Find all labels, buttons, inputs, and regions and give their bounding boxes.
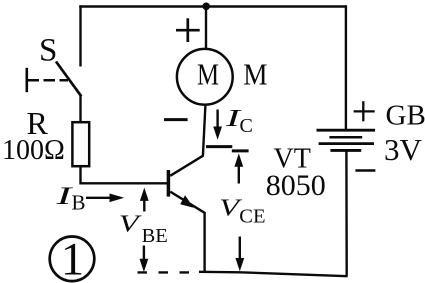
svg-text:V: V (119, 211, 143, 237)
switch S actuator dashed link (28, 79, 69, 82)
battery GB long plate 1 (317, 129, 376, 132)
transistor emitter wire (170, 192, 204, 273)
transistor emitter arrowhead (180, 195, 193, 208)
battery GB short plate 2 (330, 149, 361, 152)
svg-text:CE: CE (239, 205, 265, 227)
battery GB long plate 2 (319, 142, 374, 145)
VCE top reference bar (232, 149, 249, 152)
resistor R body (72, 122, 89, 166)
svg-text:S: S (39, 32, 57, 68)
wire right side upper (345, 5, 347, 129)
transistor collector wire from motor (170, 104, 205, 176)
svg-text:8050: 8050 (266, 169, 326, 202)
VBE up arrow (143, 199, 145, 212)
wire top-left drop to switch (79, 5, 81, 66)
bottom dashed reference line (138, 271, 201, 273)
motor M circle (177, 49, 233, 105)
svg-text:M: M (243, 58, 267, 92)
wire switch to resistor (79, 95, 81, 124)
plus sign above motor (176, 29, 200, 32)
svg-text:GB: GB (386, 100, 425, 132)
svg-text:M: M (197, 58, 219, 92)
switch S blade (56, 62, 81, 97)
arrow IB (86, 197, 111, 199)
svg-text:B: B (72, 190, 86, 214)
wire bottom rail (199, 272, 348, 276)
arrow IC (216, 110, 218, 129)
wire motor stem from node (205, 7, 207, 50)
VCE down arrow (239, 237, 241, 260)
battery GB short plate 1 (329, 136, 362, 139)
wire resistor to base L-bend (81, 166, 168, 183)
svg-text:3V: 3V (384, 132, 423, 167)
transistor Q base bar (167, 170, 171, 197)
svg-text:BE: BE (142, 225, 168, 247)
figure number circle 1 (50, 236, 95, 281)
node junction dot (202, 3, 210, 11)
svg-text:1: 1 (61, 234, 84, 283)
minus sign at battery (355, 169, 375, 172)
svg-text:C: C (240, 115, 253, 137)
plus sign at battery (354, 110, 375, 112)
collector terminal bar under IC (206, 145, 232, 148)
VBE down arrow (143, 246, 145, 260)
wire right side lower (345, 152, 348, 277)
minus sign at motor bottom (164, 118, 188, 121)
VCE up arrow (238, 164, 240, 184)
wire top rail (79, 5, 346, 7)
svg-text:100Ω: 100Ω (2, 135, 65, 166)
switch S fixed contact bar (25, 68, 28, 92)
